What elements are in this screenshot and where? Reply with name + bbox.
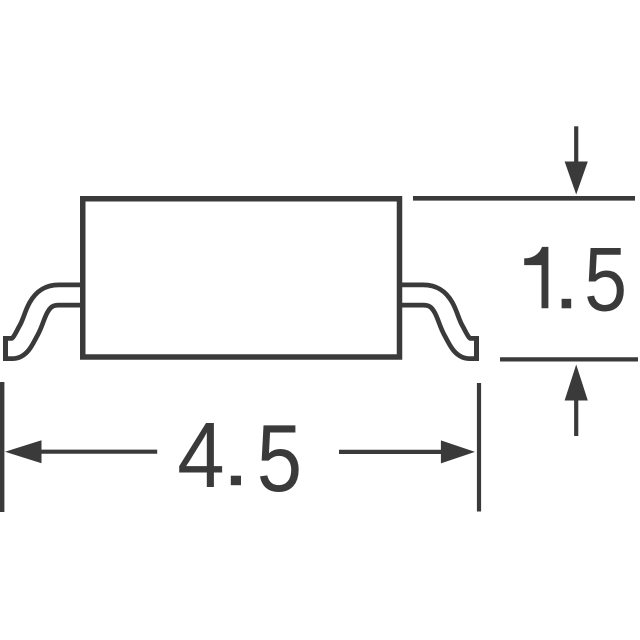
extension line (bottom, seating plane) bbox=[500, 357, 638, 361]
arrow down (1.5 dim, upper) shaft bbox=[574, 126, 578, 165]
arrow right (4.5 dim) shaft bbox=[339, 450, 445, 454]
lead L1 (left gull-wing) white core bbox=[8, 295, 88, 349]
dimension text 4.5 : decimal point bbox=[231, 476, 241, 486]
lead L2 (right gull-wing) white core bbox=[394, 295, 474, 349]
arrow right (4.5 dim) head bbox=[441, 440, 475, 463]
arrow down (1.5 dim, upper) head bbox=[565, 162, 588, 195]
extension line (left lead tip, vertical) bbox=[0, 382, 4, 512]
dimension text 1.5 : digit 1 bbox=[524, 247, 548, 308]
arrow up (1.5 dim, lower) head bbox=[565, 365, 588, 401]
extension line (top, body top plane) bbox=[413, 196, 635, 201]
arrow left (4.5 dim) head bbox=[5, 440, 42, 463]
extension line (right lead tip, vertical) bbox=[477, 383, 481, 512]
svg-text:5: 5 bbox=[584, 228, 627, 329]
svg-text:4: 4 bbox=[177, 404, 224, 507]
lead L1 (left gull-wing) dark band bbox=[3, 295, 88, 349]
arrow up (1.5 dim, lower) shaft bbox=[574, 398, 578, 436]
package body outline bbox=[83, 199, 400, 357]
arrow left (4.5 dim) shaft bbox=[36, 450, 157, 454]
dimension text 1.5 : decimal point bbox=[562, 299, 572, 309]
lead L2 (right gull-wing) dark band bbox=[394, 295, 479, 349]
svg-text:5: 5 bbox=[257, 404, 302, 512]
